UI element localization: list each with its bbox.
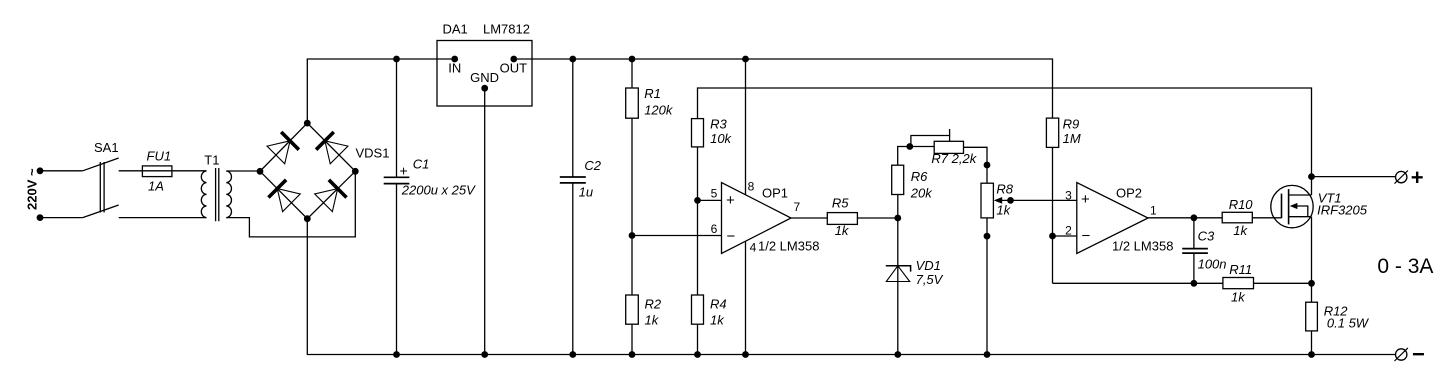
transistor VT1 IRF3205 [1271,185,1368,302]
svg-text:1k: 1k [835,223,850,238]
diode VDS1 upper-left [267,132,299,164]
svg-text:R1: R1 [644,86,661,101]
node R7 R8 junction [984,162,991,169]
regulator DA1 LM7812 [437,22,532,107]
fuse FU1 [142,149,172,194]
input terminal bottom [37,214,44,221]
node bridge left [257,168,264,175]
node R3 R4 junction pin5 [694,197,701,204]
svg-text:IRF3205: IRF3205 [1317,203,1368,218]
wire input top [40,170,83,172]
svg-text:1u: 1u [579,185,593,200]
node pin8 on top rail [742,56,749,63]
svg-text:1k: 1k [645,313,660,328]
wire OP1 pin8 power [745,59,747,195]
wire OP1 out to R5 [791,217,827,219]
resistor R1 [626,59,674,295]
node pin4 on ground rail [742,351,749,358]
capacitor C3 [1182,218,1226,283]
svg-text:1/2 LM358: 1/2 LM358 [1112,239,1173,254]
pin DA1 IN [451,56,458,63]
svg-text:1A: 1A [148,179,164,194]
wire switch to fuse to transformer [119,170,207,172]
node bridge top [304,120,311,127]
svg-text:1k: 1k [996,203,1011,218]
wire OP1 pin5 [698,199,722,201]
svg-text:+: + [1081,191,1090,208]
wire R5 to node [857,217,897,219]
svg-text:R5: R5 [832,196,849,211]
svg-text:R2: R2 [645,297,662,312]
svg-text:4: 4 [750,241,757,255]
wire top rail DA1 OUT to R9 [514,59,1053,118]
svg-text:+: + [1411,165,1424,190]
node R8 on ground rail [984,351,991,358]
resistor R12 [1306,302,1370,354]
node OP2 out C3 [1191,214,1198,221]
wire OP2 pin2 [1053,235,1077,237]
svg-text:2: 2 [1065,224,1072,238]
svg-text:FU1: FU1 [147,149,172,164]
potentiometer R8 [981,182,1077,355]
svg-text:1/2 LM358: 1/2 LM358 [758,239,819,254]
svg-text:1M: 1M [1063,131,1081,146]
svg-text:OUT: OUT [500,60,527,75]
svg-text:1k: 1k [1233,223,1248,238]
svg-text:C1: C1 [413,157,430,172]
diode VDS1 lower-left [268,180,300,212]
svg-text:3: 3 [1065,189,1072,203]
node C1 top [393,56,400,63]
node R9 OP2 pin2 [1049,233,1056,240]
pin DA1 OUT [510,56,517,63]
node bridge right [352,168,359,175]
svg-text:1: 1 [1150,204,1157,218]
node VD1 on ground rail [894,351,901,358]
wire DA1 GND to ground rail [484,88,486,354]
svg-text:C3: C3 [1198,229,1215,244]
svg-text:R9: R9 [1063,117,1080,132]
svg-text:0 - 3A: 0 - 3A [1377,255,1433,278]
label output range 0 - 3A [1377,255,1433,278]
svg-text:20k: 20k [910,186,933,201]
svg-text:R10: R10 [1229,197,1254,212]
svg-text:OP2: OP2 [1116,186,1142,201]
svg-text:100n: 100n [1198,257,1227,272]
node source R11 R12 [1308,280,1315,287]
svg-text:10k: 10k [710,131,732,146]
svg-text:R6: R6 [911,169,928,184]
svg-text:IN: IN [448,61,461,76]
capacitor C2 [560,59,602,355]
op-amp OP1 [711,180,820,255]
svg-text:R11: R11 [1229,262,1252,277]
svg-text:8: 8 [748,180,755,194]
wire switch bottom to transformer [119,217,207,219]
resistor R7 trimmer [910,129,987,183]
resistor R6 [892,147,934,219]
svg-text:R4: R4 [710,297,727,312]
wire feedback to R11 [1053,282,1223,284]
resistor R9 [1046,117,1080,284]
svg-text:+: + [400,163,408,179]
svg-text:7,5V: 7,5V [916,272,944,287]
terminal + output [1395,165,1424,190]
svg-text:120k: 120k [644,103,674,118]
svg-text:R3: R3 [710,117,727,132]
wire bridge bottom to ground rail, bottom rail [307,219,1395,355]
wire input bottom [40,217,83,219]
svg-text:2200u x 25V: 2200u x 25V [401,183,476,198]
node R12 on ground rail [1308,351,1315,358]
label 220V ~ [25,168,40,210]
node DA1 GND on rail [481,351,488,358]
wire bridge top to +rail, top rail to DA1 IN [307,59,454,123]
node R4 bottom [694,351,701,358]
op-amp OP2 [1065,183,1173,254]
wire secondary bottom to bridge right node [226,171,355,237]
svg-text:VD1: VD1 [916,258,941,273]
node C2 top [569,56,576,63]
svg-text:220V ~: 220V ~ [25,168,40,210]
svg-text:6: 6 [711,222,718,236]
svg-text:1k: 1k [1231,290,1246,305]
svg-text:DA1: DA1 [443,22,468,37]
wire R3 top to VT1 drain (+12V) [698,88,1312,195]
node C1 bottom [393,351,400,358]
resistor R11 [1223,262,1312,305]
svg-text:R7 2,2k: R7 2,2k [931,151,977,166]
resistor R10 [1222,197,1253,238]
input terminal top [37,167,44,174]
svg-text:+: + [726,192,735,209]
diode VDS1 lower-right [315,180,347,212]
svg-text:7: 7 [794,200,801,214]
svg-text:0.1 5W: 0.1 5W [1327,316,1370,331]
node R6 R7 junction [906,143,913,150]
switch SA1 [83,140,119,217]
svg-text:VDS1: VDS1 [356,146,390,161]
svg-text:T1: T1 [204,152,219,167]
svg-text:−: − [727,228,736,245]
node C2 bottom [569,351,576,358]
svg-text:5: 5 [711,187,718,201]
zener diode VD1 [886,218,944,355]
wire OP2 out to R10 [1148,217,1222,219]
wire R10 to gate [1252,217,1281,219]
terminal - output [1395,342,1425,367]
wire OP1 pin6 [632,235,722,237]
svg-text:1k: 1k [710,313,725,328]
wire secondary top to bridge [226,170,260,172]
node R1 top [629,56,636,63]
resistor R5 [827,196,857,239]
node C3 bottom [1191,280,1198,287]
svg-text:−: − [1412,342,1425,367]
wire OP1 pin4 power [745,241,747,354]
svg-text:−: − [1082,228,1091,245]
node R8 wiper [1007,197,1014,204]
capacitor C1 [384,59,476,355]
node R1 R2 junction [629,232,636,239]
svg-text:R8: R8 [996,182,1013,197]
svg-text:SA1: SA1 [94,140,119,155]
diode VDS1 upper-right [316,132,348,164]
wire drain to + terminal [1312,176,1396,178]
node VT1 drain output [1308,173,1315,180]
pin DA1 GND [481,85,488,92]
svg-text:LM7812: LM7812 [483,22,530,37]
node bridge bottom [304,215,311,222]
svg-text:C2: C2 [584,158,601,173]
transformer T1 [201,152,231,221]
node R2 bottom [629,351,636,358]
bridge rectifier VDS1 [260,123,389,219]
resistor R4 [692,295,727,355]
resistor R3 [692,117,733,296]
resistor R2 [626,295,662,355]
svg-text:GND: GND [470,70,499,85]
node R5 R6 VD1 [894,215,901,222]
svg-text:OP1: OP1 [762,186,788,201]
node R8 bottom tap [984,233,991,240]
